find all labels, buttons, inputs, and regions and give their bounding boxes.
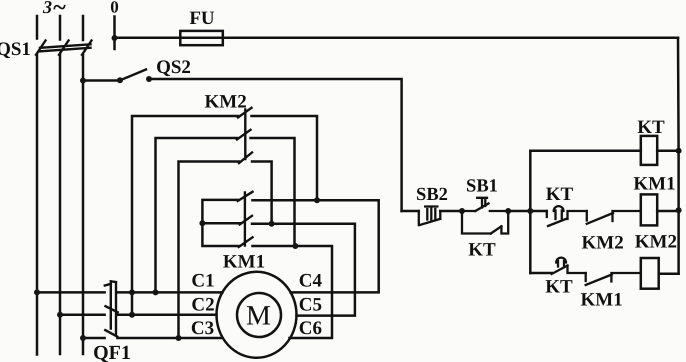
- svg-text:QS1: QS1: [0, 39, 31, 60]
- junction dot SB2-SB1: [459, 208, 465, 214]
- phase line L1: [36, 16, 39, 355]
- junction dot pole1: [314, 197, 320, 203]
- contact KM1 NC: [586, 273, 641, 285]
- switch QS2: [120, 70, 146, 81]
- wire control rail: [529, 151, 532, 273]
- wire KM2 coil out: [659, 273, 679, 276]
- junction dot SB1 out: [505, 208, 511, 214]
- wire bottom rung left: [530, 272, 551, 275]
- wire top rail: [115, 37, 679, 40]
- contactor KM1: [238, 192, 253, 247]
- wire KM2 pole1 out: [252, 116, 318, 200]
- junction dot v3-C3: [176, 335, 182, 341]
- wire return rail: [677, 38, 680, 274]
- contact KT delayed open: [552, 258, 586, 274]
- svg-text:KT: KT: [546, 184, 574, 205]
- breaker QF1: [105, 281, 118, 336]
- relay coil KT: [641, 136, 657, 165]
- svg-text:SB1: SB1: [466, 177, 498, 197]
- coil KM2: [641, 258, 659, 289]
- contactor KM2: [237, 108, 252, 163]
- svg-text:C2: C2: [191, 295, 214, 316]
- phase line L3: [82, 16, 85, 354]
- wire KM1 pole3 out to C6: [253, 246, 333, 338]
- junction dot pole3: [292, 243, 298, 249]
- svg-text:C3: C3: [191, 318, 214, 339]
- svg-text:KM2: KM2: [635, 232, 677, 253]
- wire KM1 pole1 out to C4: [253, 200, 379, 292]
- wire KM1 star bridge: [202, 200, 239, 246]
- wire phase1 to QF1: [37, 291, 105, 294]
- svg-text:C6: C6: [299, 318, 322, 339]
- junction dot bridge: [199, 220, 205, 226]
- button SB1: [462, 198, 508, 211]
- svg-text:3: 3: [42, 0, 52, 17]
- junction dot L2: [57, 312, 63, 318]
- wire top rung: [530, 150, 641, 153]
- button SB2: [419, 207, 441, 226]
- junction dot node 0: [112, 35, 118, 41]
- junction dot KM1 out: [676, 207, 682, 213]
- junction dot KT out: [676, 148, 682, 154]
- junction dot v2-C1: [153, 289, 159, 295]
- switch QS1: [36, 41, 92, 55]
- svg-text:KM1: KM1: [223, 252, 265, 273]
- junction dot pole2: [269, 221, 275, 227]
- contact KT delayed close: [547, 206, 587, 226]
- svg-text:KM2: KM2: [204, 92, 246, 113]
- junction dot rail: [527, 208, 533, 214]
- phase line L2: [59, 16, 62, 354]
- wire phase3 to QF1: [83, 337, 105, 340]
- junction dot v1-C1: [129, 289, 135, 295]
- fuse FU: [180, 31, 223, 45]
- wire into SB2: [402, 210, 419, 213]
- svg-text:QS2: QS2: [156, 57, 191, 78]
- junction dot v1-C2: [129, 312, 135, 318]
- svg-text:C1: C1: [191, 271, 214, 292]
- svg-text:KM1: KM1: [580, 290, 622, 311]
- wire QF1 to C2: [117, 313, 216, 316]
- junction dot L3: [80, 335, 86, 341]
- svg-text:M: M: [246, 301, 271, 332]
- junction dot L1: [34, 289, 40, 295]
- motor M inner circle: [237, 293, 281, 337]
- wire QS2 tap: [83, 79, 120, 82]
- svg-text:QF1: QF1: [93, 342, 131, 362]
- wire node 0: [113, 17, 116, 50]
- wire KM2 pole2 feed: [156, 138, 238, 292]
- coil KM1: [641, 194, 657, 225]
- wire SB1 to rail: [508, 210, 547, 213]
- svg-text:KM1: KM1: [633, 174, 675, 195]
- wire KM2 pole3 feed: [179, 162, 240, 339]
- wire KT coil out: [657, 150, 678, 153]
- svg-text:SB2: SB2: [416, 185, 448, 205]
- wire KM2 pole2 out: [251, 138, 295, 246]
- wire SB2 to SB1: [440, 210, 462, 213]
- svg-text:FU: FU: [189, 8, 215, 29]
- wire KM1 coil out: [657, 210, 678, 213]
- contact KT self-hold: [462, 211, 508, 234]
- svg-text:C5: C5: [299, 295, 322, 316]
- wire KM2 pole3 out: [252, 162, 272, 224]
- junction dot L3 tap: [80, 78, 86, 84]
- svg-text:KT: KT: [468, 240, 496, 261]
- svg-text:KT: KT: [637, 117, 665, 138]
- wire KM1 pole2 out to C5: [252, 224, 355, 316]
- wire QF1 to C1: [117, 291, 222, 294]
- contact KM2 NC: [587, 211, 641, 224]
- svg-text:KT: KT: [545, 277, 573, 298]
- wire QS2 to control: [149, 79, 402, 211]
- svg-text:KM2: KM2: [581, 233, 623, 254]
- wire QF1 to C3: [117, 337, 221, 340]
- svg-text:C4: C4: [299, 271, 323, 292]
- wire phase2 to QF1: [60, 313, 105, 316]
- wire KM2 pole1 feed: [132, 116, 238, 315]
- svg-text:0: 0: [110, 0, 119, 17]
- motor M outer circle: [217, 272, 297, 358]
